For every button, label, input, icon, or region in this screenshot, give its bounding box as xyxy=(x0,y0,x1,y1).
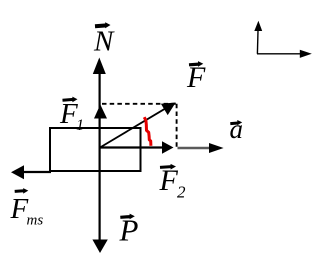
svg-text:ms: ms xyxy=(27,213,44,229)
coordinate axes top-right: horizontal axis xyxy=(257,50,312,58)
force F2 arrow (horizontal component, to the right) xyxy=(100,141,174,153)
wire: vertical axis line through origin xyxy=(98,70,100,241)
label F2 (vector F2) xyxy=(159,164,187,202)
force Fms arrow (friction, to the left) xyxy=(11,165,51,179)
force N arrow (arrowhead up) xyxy=(93,58,106,75)
acceleration a arrow (gray shaft, right) xyxy=(178,143,224,153)
force F1 arrowhead (vertical component of F) xyxy=(94,105,107,119)
label F (vector F) xyxy=(186,61,206,94)
svg-text:1: 1 xyxy=(76,117,84,134)
label P (vector P) xyxy=(119,213,139,248)
force P arrow (arrowhead down) xyxy=(92,240,107,254)
label a (vector a) xyxy=(230,114,244,144)
force F arrow (diagonal up-right) xyxy=(100,103,176,148)
svg-text:2: 2 xyxy=(177,183,186,202)
label N (vector N) xyxy=(93,22,115,57)
svg-text:N: N xyxy=(93,26,115,58)
label F1 (vector F1) xyxy=(59,97,84,134)
dashed projection line horizontal (top of component box) xyxy=(102,103,178,105)
label Fms (vector Fms) xyxy=(10,188,44,228)
coordinate axes top-right: vertical axis xyxy=(254,21,262,54)
svg-text:a: a xyxy=(230,114,244,144)
dashed projection line vertical (right of component box) xyxy=(176,104,178,148)
block (box on surface) xyxy=(50,128,141,171)
svg-text:F: F xyxy=(159,164,179,197)
angle mark (red squiggle between F and F2) xyxy=(144,117,151,146)
svg-text:F: F xyxy=(186,61,206,94)
